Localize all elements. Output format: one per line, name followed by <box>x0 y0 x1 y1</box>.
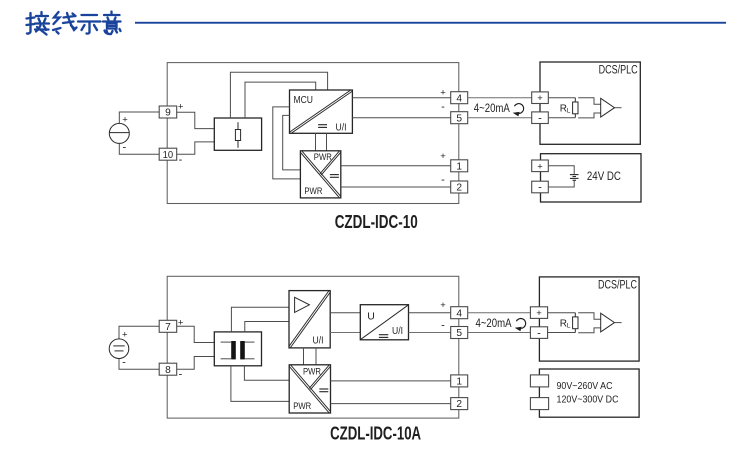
svg-text:5: 5 <box>456 113 462 124</box>
terminal 4 (bottom) <box>451 307 468 320</box>
supply - box <box>532 181 549 194</box>
svg-text:120V~300V DC: 120V~300V DC <box>557 394 619 406</box>
svg-text:4: 4 <box>456 93 462 104</box>
svg-text:+: + <box>178 102 184 113</box>
terminal 2 (bottom) <box>451 398 468 411</box>
wire: transformer top-left to amp block <box>231 307 289 332</box>
wire: jumper to amp upper (bottom) <box>578 313 601 320</box>
svg-text:PWR: PWR <box>293 401 311 412</box>
wire: U block right to terminal 4 <box>409 312 451 314</box>
svg-text:+: + <box>536 308 542 319</box>
svg-text:MCU: MCU <box>294 94 314 106</box>
load resistor RL (bottom) <box>573 313 578 333</box>
wire: jumper to amp lower (bottom) <box>578 328 601 333</box>
terminal 1 (bottom) <box>451 375 468 388</box>
wire: MCU bottom to PWR top (left) <box>315 133 317 151</box>
wire: PWR right to terminal 2 <box>331 403 451 405</box>
svg-text:-: - <box>122 356 126 368</box>
svg-text:2: 2 <box>456 399 462 410</box>
wire: input box top-left to MCU top <box>230 72 327 118</box>
svg-text:-: - <box>179 369 183 381</box>
terminal 4 <box>451 92 468 105</box>
power converter U2 PWR block <box>300 150 342 199</box>
char 意 <box>103 12 121 35</box>
DCS/PLC box (bottom) <box>539 277 639 361</box>
char 接 <box>27 12 50 35</box>
op-amp A1 (DCS input amp, top) <box>601 98 615 117</box>
wire: jumper to amp lower <box>578 113 601 118</box>
terminal 5 <box>451 112 468 125</box>
svg-text:4~20mA: 4~20mA <box>474 103 510 115</box>
terminal 2 <box>451 181 468 194</box>
svg-text:U/I: U/I <box>392 325 403 337</box>
wire: amp bottom to PWR top (right) <box>315 348 317 365</box>
op-amp/isolator U1 MCU block <box>289 89 353 134</box>
resistor R (inside input box) <box>235 122 240 148</box>
wire: input box top-right to MCU top <box>245 82 316 118</box>
terminal 8 <box>159 363 177 376</box>
svg-text:+: + <box>122 329 128 340</box>
svg-text:-: - <box>538 182 542 194</box>
wire: U block right to terminal 5 <box>409 332 451 334</box>
wire: PWR right to terminal 2 <box>341 186 451 188</box>
wire: amp bottom to PWR top (left) <box>303 348 305 365</box>
wire: DCS + to RL <box>548 97 575 99</box>
enclosure (transmitter body, bottom diagram) <box>167 276 459 418</box>
op-amp A2 (DCS input amp, bottom) <box>601 313 615 332</box>
wire: MCU right to terminal 4 <box>352 97 450 99</box>
svg-text:90V~260V AC: 90V~260V AC <box>557 380 613 392</box>
svg-text:8: 8 <box>165 365 171 376</box>
svg-text:1: 1 <box>456 161 462 172</box>
transformer T1 symbol <box>221 341 255 359</box>
svg-text:U: U <box>367 311 375 323</box>
battery BT1 <box>570 175 579 181</box>
svg-text:24V DC: 24V DC <box>587 171 621 183</box>
wire: terminal 5 to DCS - <box>468 117 532 119</box>
svg-text:PWR: PWR <box>304 186 322 197</box>
wire: terminal 5 to DCS - (bottom) <box>468 332 531 334</box>
terminal 9 <box>159 106 177 119</box>
svg-text:+: + <box>122 115 128 126</box>
svg-text:L: L <box>567 323 571 330</box>
wire: voltage source top to terminal 7 <box>119 326 159 339</box>
wire: DCS + to RL (bottom) <box>548 312 576 314</box>
title underline <box>135 22 726 24</box>
wire: MCU bottom to PWR top (right) <box>326 133 328 151</box>
svg-text:2: 2 <box>456 183 462 194</box>
wire: transformer top-right to amp block <box>245 322 289 332</box>
terminal 5 (bottom) <box>451 327 468 340</box>
title 接线示意 (hand-drawn strokes) <box>27 12 121 35</box>
svg-text:-: - <box>441 319 445 331</box>
svg-text:DCS/PLC: DCS/PLC <box>598 280 637 292</box>
wire: terminal 4 to DCS + (bottom) <box>468 312 531 314</box>
wire: current source bottom to terminal 10 <box>119 143 159 154</box>
DCS + input box <box>532 92 549 104</box>
voltage source = bars <box>113 345 124 347</box>
supply input box L <box>530 375 548 387</box>
wire: terminal 10 to input network <box>177 142 215 154</box>
svg-text:CZDL-IDC-10A: CZDL-IDC-10A <box>330 423 421 443</box>
svg-text:U/I: U/I <box>336 121 347 133</box>
svg-text:-: - <box>122 142 126 154</box>
current direction arrow <box>513 104 524 117</box>
DCS/PLC box (top) <box>540 62 640 144</box>
svg-text:4: 4 <box>456 308 462 319</box>
wire: PWR right to terminal 1 <box>331 380 451 382</box>
terminal 1 <box>451 160 468 173</box>
svg-text:+: + <box>440 88 446 99</box>
amplifier/isolator U3 block <box>288 290 330 349</box>
svg-text:9: 9 <box>165 108 171 119</box>
svg-text:7: 7 <box>165 322 171 333</box>
DCS + input box (bottom) <box>530 307 547 319</box>
wire: amp right lower to U block <box>330 332 360 334</box>
wire: terminal 4 to DCS + <box>468 97 532 99</box>
DCS - input box <box>532 112 549 125</box>
svg-text:PWR: PWR <box>303 366 321 377</box>
wire: MCU right to terminal 5 <box>352 117 450 119</box>
svg-text:DCS/PLC: DCS/PLC <box>599 65 638 77</box>
AC supply box <box>539 369 639 417</box>
terminal 7 <box>159 320 177 333</box>
svg-text:+: + <box>178 318 184 329</box>
svg-text:+: + <box>537 93 543 104</box>
wire: terminal 8 to transformer <box>177 357 215 370</box>
svg-text:+: + <box>440 151 446 162</box>
svg-text:-: - <box>538 112 542 124</box>
svg-text:L: L <box>567 108 571 115</box>
svg-text:-: - <box>441 174 445 186</box>
svg-text:10: 10 <box>163 150 174 161</box>
power converter U4 PWR block (bottom) <box>289 364 332 414</box>
wire: terminal 7 to transformer <box>177 326 215 342</box>
wire: current source top to terminal 9 <box>119 112 159 124</box>
U/I converter U5 block <box>360 305 408 340</box>
wire: amp right upper to U block <box>330 312 360 314</box>
wire: voltage source bottom to terminal 8 <box>119 358 159 369</box>
enclosure (transmitter body, top diagram) <box>167 63 459 204</box>
wire: MCU left upper wrap to PWR left lower <box>273 107 301 179</box>
wire: MCU left lower wrap to PWR left upper <box>283 115 301 169</box>
wire: transformer bottom-left to PWR block <box>231 366 289 402</box>
amp triangle symbol <box>295 297 310 312</box>
svg-text:+: + <box>537 161 543 172</box>
current source bar <box>110 132 130 134</box>
svg-text:-: - <box>179 154 183 166</box>
supply input box N <box>530 398 548 410</box>
wire: op-amp output (bottom) <box>615 322 622 324</box>
24V DC supply box <box>541 154 642 202</box>
wire: DCS - to RL (bottom) <box>548 332 576 334</box>
wire: terminal 9 to input network <box>177 112 215 128</box>
wire: DCS - to RL <box>548 117 575 119</box>
svg-text:U/I: U/I <box>313 334 324 346</box>
supply + box <box>532 160 549 172</box>
load resistor RL <box>573 98 578 118</box>
wire: PWR right to terminal 1 <box>341 165 451 167</box>
DCS - input box (bottom) <box>530 327 547 340</box>
svg-text:PWR: PWR <box>314 152 332 163</box>
svg-text:5: 5 <box>456 328 462 339</box>
voltage source VS1 (circle) <box>109 339 129 359</box>
char 示 <box>78 15 101 34</box>
char 线 <box>53 12 77 34</box>
wire: op-amp output <box>615 107 622 109</box>
svg-text:1: 1 <box>456 377 462 388</box>
current direction arrow (bottom) <box>515 318 526 331</box>
wire: jumper to amp upper <box>578 98 601 105</box>
wire: battery to supply - <box>548 180 574 187</box>
wire: supply + to battery <box>548 166 574 175</box>
svg-text:CZDL-IDC-10: CZDL-IDC-10 <box>335 212 418 232</box>
terminal 10 <box>159 148 177 161</box>
wire: transformer bottom-right to PWR block <box>244 366 289 381</box>
current source CS1 (circle) <box>109 123 129 143</box>
svg-text:4~20mA: 4~20mA <box>476 318 512 330</box>
input network box <box>214 118 261 150</box>
svg-text:+: + <box>440 300 446 311</box>
svg-text:-: - <box>537 327 541 339</box>
transformer box <box>214 332 261 366</box>
svg-text:-: - <box>441 101 445 113</box>
